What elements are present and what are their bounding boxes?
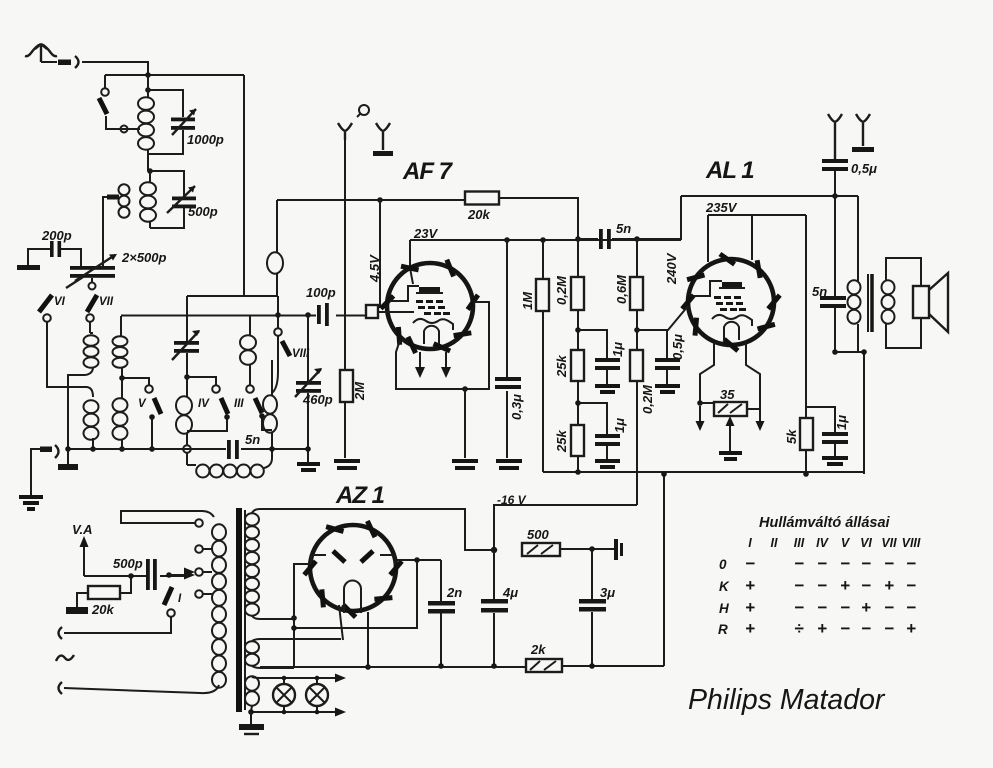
svg-text:−: − — [745, 554, 755, 573]
resistor 0.2M — [577, 239, 579, 350]
arrow down left — [699, 406, 701, 422]
AL1 grid staircase — [694, 281, 722, 296]
mains tap circles — [195, 519, 203, 527]
wire box to ground — [464, 389, 466, 458]
wire padder to node — [186, 353, 188, 377]
capacitor 3u — [579, 599, 606, 604]
wire to 1u cap b — [578, 403, 607, 434]
wire 0.2M b down to -16V — [636, 381, 638, 505]
ground 1u b — [595, 461, 620, 467]
switch V circle — [145, 385, 153, 393]
padder column top link — [186, 296, 188, 341]
svg-text:23V: 23V — [413, 226, 438, 241]
switch I blade — [164, 587, 172, 605]
switch VI blade — [39, 295, 52, 312]
wire 5k bottom — [805, 450, 807, 474]
capacitor 2n — [428, 601, 455, 606]
wiper ground — [719, 453, 742, 459]
svg-text:500p: 500p — [188, 204, 218, 219]
capacitor 500p b — [146, 559, 150, 590]
HV bottom lead — [252, 616, 294, 619]
svg-text:+: + — [817, 619, 827, 638]
AZ1 plate steps — [311, 555, 395, 564]
node 1M on rail — [540, 237, 546, 243]
svg-text:25k: 25k — [554, 355, 569, 378]
table row labels — [718, 557, 730, 637]
tube AF7 envelope — [387, 263, 473, 349]
ground under AF7 — [452, 461, 478, 468]
svg-text:III: III — [794, 536, 805, 550]
vertical fork1 to ground — [344, 140, 346, 458]
AF7 anode hat — [419, 287, 440, 293]
speaker loop top — [886, 258, 921, 286]
capacitor 460p variable — [296, 381, 321, 385]
resistor 0.6M — [636, 239, 638, 350]
capacitor 0.5u top — [822, 159, 848, 163]
svg-text:−: − — [840, 598, 850, 617]
wire VI down — [47, 322, 86, 387]
wire 5k to 1u c — [806, 407, 835, 432]
svg-text:V: V — [841, 536, 851, 550]
pilot bottom lead with arrow — [251, 706, 338, 712]
mains connector 2 — [59, 682, 63, 694]
AL1 cathode wave — [712, 315, 752, 326]
wire stub to switch S1 — [104, 75, 106, 88]
fork terminal 2 — [376, 123, 390, 150]
svg-text:500p: 500p — [113, 556, 143, 571]
node 2n top — [414, 557, 420, 563]
svg-text:25k: 25k — [554, 430, 569, 453]
chassis stub below input node — [65, 446, 71, 452]
capacitor 4u — [481, 599, 508, 604]
cathode box path — [396, 302, 489, 389]
wire 1u b to ground — [606, 446, 608, 459]
arrow into tap 3 — [184, 568, 195, 577]
switch III circle — [246, 385, 254, 393]
svg-text:−: − — [906, 576, 916, 595]
switch node circle — [89, 283, 96, 290]
resistor 5k — [800, 418, 813, 450]
fork terminal 3 — [828, 114, 842, 159]
wire VIII to coil E top — [272, 336, 278, 393]
AZ1 loop bottom wire — [294, 560, 417, 628]
wire 460p to bus end — [307, 393, 309, 462]
AL1 screen dashes — [714, 296, 746, 311]
switch VIII blade — [282, 341, 290, 356]
node 5n bottom — [832, 349, 838, 355]
svg-text:20k: 20k — [91, 602, 114, 617]
tube AF7 pin ticks — [381, 260, 478, 353]
table marks row R — [745, 619, 916, 638]
coil D1 top link — [249, 315, 251, 336]
svg-text:500: 500 — [527, 527, 549, 542]
wire 200p right — [61, 249, 81, 266]
AF7 cathode dome — [424, 326, 439, 344]
capacitor C4 2x500p — [70, 266, 115, 270]
rail 20k to chain corner — [499, 198, 578, 239]
capacitor 1u c — [822, 432, 848, 436]
oscillator coil horizontal — [196, 449, 272, 478]
node link top — [661, 471, 667, 477]
pilot winding — [245, 676, 259, 705]
svg-text:0: 0 — [719, 557, 727, 572]
svg-text:−: − — [794, 598, 804, 617]
svg-text:−: − — [861, 554, 871, 573]
pot leads — [700, 403, 760, 409]
OT primary bottom — [835, 324, 858, 352]
svg-text:0,6M: 0,6M — [614, 274, 629, 304]
wire plug to corner — [82, 62, 148, 75]
svg-text:1μ: 1μ — [610, 342, 625, 357]
500p tank top wire — [150, 171, 184, 196]
node B2 bottom — [119, 446, 125, 452]
wire 2x500p to switch node — [91, 278, 93, 282]
AF7 grid line from cap — [378, 311, 414, 313]
heater arrow 1 — [419, 352, 421, 368]
node pot left — [697, 400, 703, 406]
node pilot — [248, 709, 254, 715]
rail y199 from coupling coil to 20k — [277, 199, 465, 201]
20k b chassis — [77, 593, 88, 607]
coupling coil column — [276, 200, 278, 296]
svg-text:VI: VI — [54, 296, 66, 308]
grid rail y315 — [121, 315, 366, 317]
speaker driver — [913, 286, 929, 318]
node VIII rail — [275, 312, 281, 318]
node 20k tap — [128, 573, 134, 579]
node A2 bottom — [90, 446, 96, 452]
node y628 — [291, 625, 297, 631]
speaker loop bottom — [886, 318, 921, 348]
coil D1 — [240, 335, 256, 385]
wire VII down — [89, 322, 91, 333]
coil C — [176, 377, 192, 445]
node 0.6M bottom — [634, 327, 640, 333]
AZ1 left pin wire — [294, 564, 310, 667]
svg-text:1μ: 1μ — [612, 418, 627, 433]
svg-text:0,5μ: 0,5μ — [670, 334, 685, 360]
svg-text:VIII: VIII — [902, 536, 921, 550]
node 500 left — [491, 547, 497, 553]
wire V to bus — [151, 416, 153, 449]
node 500p tank top — [147, 168, 153, 174]
svg-text:+: + — [745, 598, 755, 617]
stub bar under fork 4 — [852, 147, 874, 152]
svg-text:200p: 200p — [41, 228, 72, 243]
23V rail — [410, 239, 681, 241]
heater arrow 2 — [445, 352, 447, 368]
arrow into tap — [184, 571, 195, 580]
svg-text:35: 35 — [720, 387, 735, 402]
node 0.5u top rail — [832, 193, 838, 199]
svg-text:20k: 20k — [467, 207, 490, 222]
capacitor 1u a — [595, 358, 620, 362]
svg-text:+: + — [840, 576, 850, 595]
tube AZ1 envelope — [310, 525, 396, 611]
coil A2 — [84, 387, 99, 449]
fork terminal 4 — [856, 114, 870, 146]
svg-text:+: + — [745, 619, 755, 638]
svg-text:H: H — [719, 601, 729, 616]
coil L2 — [140, 171, 156, 228]
svg-text:1000p: 1000p — [187, 132, 224, 147]
svg-text:II: II — [771, 536, 778, 550]
osc tap circle on bus — [183, 445, 191, 453]
wire 1u c ground — [834, 444, 836, 456]
svg-text:0,2M: 0,2M — [554, 275, 569, 305]
HV secondary — [245, 513, 259, 615]
svg-text:IV: IV — [816, 536, 829, 550]
ground 0.5u — [655, 386, 680, 392]
output transformer primary — [848, 280, 861, 323]
node HV bottom — [291, 615, 297, 621]
wire 23V to anode — [410, 240, 413, 284]
svg-text:−: − — [906, 598, 916, 617]
pilot ground — [250, 712, 252, 724]
wire A1 bottom to input column — [68, 375, 85, 449]
node top rail — [145, 72, 151, 78]
svg-text:+: + — [884, 576, 894, 595]
svg-text:VI: VI — [860, 536, 872, 550]
AL1 frame left drop — [637, 196, 681, 239]
svg-text:I: I — [748, 536, 752, 550]
table marks row K — [745, 576, 916, 595]
vertical from top tank x244 — [243, 75, 245, 296]
wire 5n node down — [835, 352, 864, 474]
mains connector 1 — [59, 627, 63, 639]
vertical link AL1 rail to bottom — [663, 474, 665, 666]
svg-text:460p: 460p — [302, 392, 333, 407]
table marks row H — [745, 598, 916, 617]
table header roman numerals — [748, 536, 921, 550]
svg-text:−: − — [817, 576, 827, 595]
stub bar under fork 2 — [373, 151, 393, 156]
svg-text:IV: IV — [198, 398, 210, 410]
node 0.3u on rail — [504, 237, 510, 243]
resistor 25k a — [571, 350, 584, 381]
tube AL1 envelope — [688, 259, 774, 345]
svg-text:100p: 100p — [306, 285, 336, 300]
switch VII blade — [87, 295, 97, 312]
AZ1 bottom pin wire — [367, 612, 369, 667]
svg-text:3μ: 3μ — [600, 585, 615, 600]
pickup wire — [84, 575, 186, 577]
transformer primary — [212, 524, 226, 687]
wire 2n column — [440, 560, 442, 665]
svg-text:−: − — [840, 619, 850, 638]
coil A1 — [84, 333, 99, 375]
svg-text:5n: 5n — [245, 432, 260, 447]
5n column — [834, 196, 836, 352]
460p column — [307, 315, 309, 381]
AF7 bottom rail — [543, 471, 864, 473]
resistor 500 — [522, 543, 560, 556]
fork terminal 1 — [338, 123, 352, 140]
wire antenna to plug — [41, 61, 57, 63]
svg-text:2k: 2k — [530, 642, 546, 657]
switch VII circle — [86, 314, 94, 322]
output transformer secondary — [882, 280, 895, 323]
node 25k mid — [577, 381, 579, 425]
svg-text:5k: 5k — [784, 429, 799, 444]
resistor 20k b — [120, 576, 131, 593]
svg-text:III: III — [234, 398, 244, 410]
node padder bottom — [184, 374, 190, 380]
wire III to coil E bottom — [262, 415, 272, 430]
wire 200p left to ground — [28, 249, 50, 265]
svg-text:+: + — [745, 576, 755, 595]
svg-text:−: − — [884, 554, 894, 573]
svg-text:1M: 1M — [520, 291, 535, 310]
svg-text:−: − — [861, 619, 871, 638]
500p tank bottom wire — [150, 208, 184, 228]
svg-text:−: − — [794, 576, 804, 595]
wire 0.5u to rail — [834, 171, 836, 196]
svg-text:VII: VII — [99, 296, 114, 308]
switch IV blade — [221, 398, 228, 414]
svg-text:V: V — [138, 398, 147, 410]
svg-text:0,2M: 0,2M — [640, 384, 655, 414]
wire 3u column — [591, 549, 593, 665]
svg-text:−: − — [884, 619, 894, 638]
wire coupled winding down — [103, 197, 107, 266]
node 0.6M rail — [634, 236, 640, 242]
wire mains 2 to primary — [64, 685, 219, 693]
speaker cone — [929, 273, 948, 332]
AZ1 cathode dome — [344, 581, 361, 614]
node 3u top — [589, 546, 595, 552]
AL1 anode hat — [722, 282, 742, 288]
wire 0.3u column — [506, 240, 508, 458]
AF7 screen dashes — [416, 300, 450, 315]
top B+ rail — [681, 195, 858, 197]
wire 0.5u ground — [666, 370, 668, 384]
capacitor 5n on bus — [227, 440, 231, 459]
ground under 460p — [297, 464, 320, 470]
resistor 25k b — [571, 425, 584, 456]
svg-text:1μ: 1μ — [834, 415, 849, 430]
OT core — [867, 274, 869, 332]
capacitor padder variable — [174, 341, 199, 345]
tube AL1 pin ticks — [682, 254, 780, 351]
svg-text:−: − — [884, 598, 894, 617]
grid cap square — [366, 305, 378, 318]
switch III blade — [255, 398, 262, 413]
capacitor C2 500p — [172, 197, 196, 201]
AF7 cathode wave — [413, 319, 453, 330]
heater winding top lead — [252, 639, 341, 641]
antenna — [25, 44, 57, 62]
resistor 35 — [714, 402, 747, 416]
capacitor 5n AL1 — [820, 296, 846, 300]
tap circle — [121, 126, 128, 133]
node 0.2M corner on rail — [575, 236, 581, 242]
capacitor 5n coupling — [599, 229, 603, 249]
svg-text:−: − — [817, 554, 827, 573]
wire tap to osc coil — [187, 453, 196, 465]
vertical to grid — [379, 200, 381, 308]
resistor 20k — [465, 192, 499, 205]
transformer core — [236, 508, 242, 712]
HV top lead to AZ1 rail — [252, 509, 494, 550]
coil B2 — [113, 378, 128, 449]
node grid rail — [377, 197, 383, 203]
svg-text:235V: 235V — [705, 200, 738, 215]
AZ1 plate marks — [333, 551, 373, 562]
svg-text:2n: 2n — [446, 585, 462, 600]
wire 1u a to ground — [606, 370, 608, 384]
switch VIII circle — [274, 328, 282, 336]
svg-text:4μ: 4μ — [502, 585, 518, 600]
input connector J2 — [55, 445, 59, 458]
switch IV circle — [212, 385, 220, 393]
connector ticks — [614, 539, 618, 560]
wire I to mains — [64, 617, 171, 633]
svg-text:−: − — [906, 554, 916, 573]
resistor 1M — [542, 240, 544, 472]
svg-text:2M: 2M — [352, 381, 367, 401]
coupled winding lead bar — [107, 195, 119, 200]
1000p tank top wire — [148, 75, 183, 117]
OT primary feed — [857, 196, 859, 281]
capacitor 0.5u — [655, 358, 680, 362]
V.A arrow — [83, 545, 85, 576]
top rail y75 — [105, 74, 244, 76]
primary top wrap wire — [121, 511, 214, 523]
pilot top lead with arrow — [252, 677, 338, 678]
capacitor 1u b — [595, 434, 620, 438]
AL1 cathode leads to pot — [700, 342, 760, 403]
node 4u rail — [491, 663, 497, 669]
AZ1 heater lead — [339, 605, 343, 640]
node tank top — [145, 87, 151, 93]
node 5k rail — [803, 471, 809, 477]
ground under 200p — [17, 265, 40, 270]
svg-text:AF 7: AF 7 — [402, 158, 454, 185]
capacitor 100p — [317, 305, 321, 324]
wire IV to coil C bottom — [187, 416, 227, 431]
resistor 2k — [526, 659, 562, 672]
wire S1 to coil tap — [106, 116, 140, 129]
arrow down right — [759, 409, 761, 422]
wire 500 right — [560, 548, 614, 550]
node screen divider — [575, 327, 581, 333]
ground under 0.3u — [496, 461, 522, 468]
node box ground — [462, 386, 468, 392]
node after cap — [166, 572, 172, 578]
node 460p rail — [305, 312, 311, 318]
node bottom pin rail — [365, 664, 371, 670]
AF7 grid staircase — [390, 286, 419, 301]
wire 235V to top-left pin — [707, 215, 709, 262]
resistor 0.2M b — [630, 350, 643, 381]
AL1 cathode dome — [724, 322, 739, 340]
tilde symbol — [56, 655, 74, 661]
terminal circle with tick — [359, 105, 369, 115]
svg-text:5n: 5n — [616, 221, 631, 236]
heater winding bottom lead — [252, 666, 294, 668]
svg-text:R: R — [718, 622, 728, 637]
235V rail — [708, 214, 806, 216]
wire 5n rail — [578, 238, 681, 240]
node 3u rail — [589, 663, 595, 669]
bottom power rail — [260, 666, 664, 667]
tap stubs — [203, 549, 212, 594]
1000p tank bottom wire — [148, 130, 183, 171]
resistor 2M — [340, 370, 353, 402]
svg-text:4,5V: 4,5V — [367, 254, 382, 283]
svg-text:VII: VII — [881, 536, 897, 550]
